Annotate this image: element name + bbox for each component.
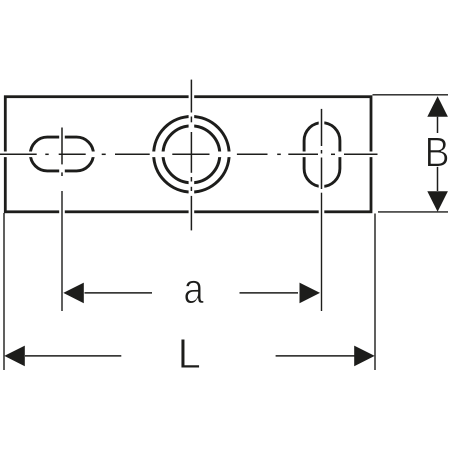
dimension line B upper segment — [437, 117, 439, 133]
label B — [428, 138, 448, 167]
centerline vertical of right slot — [321, 109, 323, 189]
centerline vertical of center hole — [190, 80, 192, 231]
arrowhead L left — [4, 346, 25, 367]
plate outline — [5, 97, 371, 212]
slot left (horizontal stadium hole) — [30, 137, 93, 171]
centerline halos (white breaks over outlines) — [0, 80, 378, 311]
extension line L right — [374, 214, 376, 371]
extension line B bottom — [378, 211, 448, 213]
extension line a left (below left slot) — [61, 191, 63, 311]
hole center outer circle — [154, 117, 230, 193]
dimension line a right segment — [240, 292, 299, 294]
arrowhead B down — [427, 191, 448, 212]
centerline horizontal (dash-dot through all holes) — [0, 153, 378, 155]
arrowhead B up — [427, 96, 448, 117]
extension line B top — [373, 94, 449, 96]
arrowhead L right — [354, 346, 375, 367]
label L — [181, 339, 200, 368]
arrowhead a left — [63, 283, 84, 304]
dimension line L right segment — [276, 355, 355, 357]
dimension line a left segment — [85, 292, 153, 294]
extension line L left — [3, 213, 5, 370]
slot right (vertical stadium hole) — [304, 123, 340, 187]
dimension line B lower segment — [437, 166, 439, 191]
dimension line L left segment — [25, 355, 121, 357]
arrowhead a right — [300, 283, 321, 304]
extension line a right (below right slot) — [321, 193, 323, 311]
centerline vertical of left slot — [61, 128, 63, 177]
label a — [185, 280, 204, 303]
hole center inner circle — [163, 126, 220, 183]
